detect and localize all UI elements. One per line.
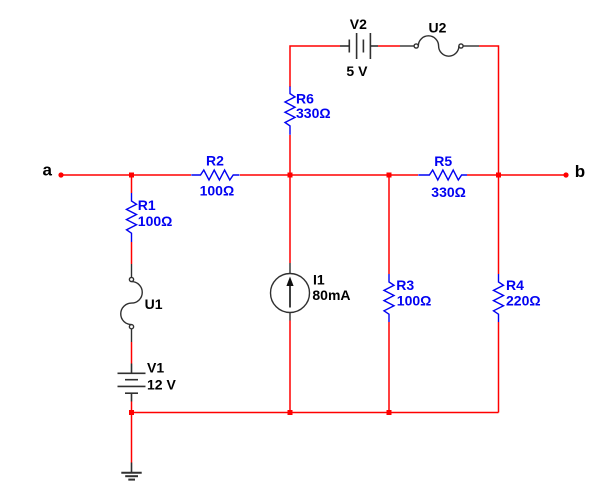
wire middle center: R2 to R5 — [240, 174, 418, 176]
resistor R5 — [418, 170, 467, 180]
junction I1/bottom rail — [288, 410, 293, 415]
svg-text:U1: U1 — [145, 296, 163, 312]
svg-text:330Ω: 330Ω — [431, 184, 466, 200]
svg-text:100Ω: 100Ω — [200, 183, 235, 199]
svg-text:12 V: 12 V — [147, 377, 176, 393]
svg-text:5 V: 5 V — [346, 63, 368, 79]
battery V2 — [340, 33, 378, 59]
wire middle left: terminal a to R2 — [61, 174, 191, 176]
resistor R4 — [494, 274, 504, 322]
ground — [121, 463, 141, 480]
wire U2 right lead to top-right corner down to node at R5/R4 — [479, 46, 499, 173]
svg-text:I1: I1 — [313, 272, 325, 288]
wire node a junction down to R1 — [131, 175, 133, 193]
wire I1 to bottom rail — [289, 321, 291, 413]
svg-text:b: b — [575, 162, 585, 181]
resistor R1 — [127, 193, 137, 242]
svg-text:100Ω: 100Ω — [138, 213, 173, 229]
node a terminal dot — [58, 172, 63, 177]
junction R3/middle rail — [387, 173, 392, 178]
svg-text:V1: V1 — [147, 360, 164, 376]
junction R6-I1/middle rail — [288, 173, 293, 178]
svg-text:a: a — [43, 161, 53, 180]
wire middle right: R5 to terminal b — [467, 174, 566, 176]
wire middle rail down to I1 — [289, 175, 291, 263]
fuse U2 — [400, 36, 479, 56]
fuse U1 — [121, 264, 143, 342]
wire U1 to V1 — [131, 342, 133, 364]
wire R4 to bottom rail — [498, 322, 500, 413]
wire R3 to bottom rail — [388, 322, 390, 413]
wire V1 to bottom rail and ground stem — [131, 402, 133, 463]
junction R4/middle rail — [496, 173, 501, 178]
svg-text:220Ω: 220Ω — [506, 293, 541, 309]
junction V1/bottom rail — [129, 410, 134, 415]
wire top-left corner from top rail down to R6 — [290, 46, 340, 87]
svg-text:330Ω: 330Ω — [296, 105, 331, 121]
wire between V2 and U2 — [378, 45, 400, 47]
svg-text:R1: R1 — [138, 197, 156, 213]
svg-text:V2: V2 — [350, 16, 367, 32]
resistor R6 — [285, 87, 295, 135]
junction R3/bottom rail — [387, 410, 392, 415]
svg-text:R5: R5 — [434, 153, 452, 169]
resistor R3 — [384, 274, 394, 322]
wire node down to R4 — [498, 175, 500, 274]
svg-text:U2: U2 — [429, 19, 447, 35]
svg-text:R3: R3 — [396, 277, 414, 293]
wire middle rail down to R3 — [388, 175, 390, 274]
wire R1 to U1 — [131, 242, 133, 264]
svg-text:R2: R2 — [206, 153, 224, 169]
node b terminal dot — [563, 172, 568, 177]
svg-text:R4: R4 — [506, 277, 524, 293]
wire bottom rail — [132, 412, 499, 414]
svg-text:100Ω: 100Ω — [397, 293, 432, 309]
current source I1 — [271, 263, 310, 321]
wire R6 bottom to middle rail — [289, 135, 291, 175]
svg-text:80mA: 80mA — [312, 287, 350, 303]
resistor R2 — [191, 170, 239, 180]
battery V1 — [118, 364, 146, 402]
junction R1/middle rail — [129, 173, 134, 178]
